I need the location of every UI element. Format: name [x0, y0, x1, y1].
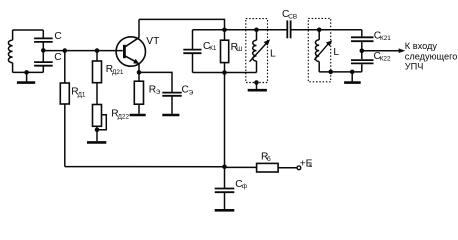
svg-text:следующего: следующего: [405, 51, 458, 61]
svg-text:L: L: [270, 49, 276, 60]
svg-text:Э: Э: [189, 89, 194, 96]
svg-text:C: C: [54, 31, 61, 42]
svg-text:К1: К1: [209, 45, 217, 52]
svg-text:Э: Э: [156, 89, 161, 96]
svg-text:к: к: [309, 162, 312, 169]
svg-text:C: C: [54, 52, 61, 63]
svg-text:К22: К22: [380, 56, 391, 63]
svg-text:VT: VT: [146, 36, 159, 47]
svg-text:К входу: К входу: [405, 41, 438, 51]
svg-text:СВ: СВ: [288, 14, 297, 21]
svg-text:Д21: Д21: [112, 69, 124, 76]
svg-text:б: б: [267, 155, 271, 163]
svg-text:Д1: Д1: [78, 92, 86, 99]
svg-text:Ш: Ш: [236, 46, 242, 53]
svg-text:ф: ф: [242, 183, 247, 190]
svg-text:Д22: Д22: [118, 113, 130, 120]
svg-text:L: L: [333, 47, 339, 58]
svg-text:УПЧ: УПЧ: [405, 62, 424, 72]
svg-text:К21: К21: [380, 35, 391, 42]
